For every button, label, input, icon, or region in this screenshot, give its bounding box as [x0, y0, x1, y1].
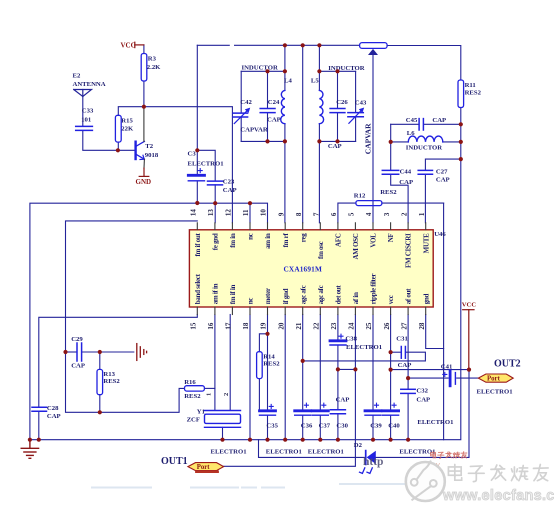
svg-text:ELECTRO1: ELECTRO1 — [211, 449, 247, 456]
svg-text:ELECTRO1: ELECTRO1 — [417, 419, 453, 426]
svg-text:21: 21 — [295, 322, 303, 330]
wire pin 2 elbow to C44 bottom — [391, 175, 408, 223]
svg-text:C32: C32 — [416, 387, 428, 394]
ground GND under T2 — [139, 168, 149, 176]
svg-text:NF: NF — [387, 233, 395, 242]
wire C41 to OUT2 port — [457, 377, 479, 379]
node right tank bottom / C26 — [335, 139, 339, 143]
wire R12 right lead — [382, 202, 444, 204]
svg-text:CAP: CAP — [328, 143, 342, 150]
svg-text:if gnd: if gnd — [282, 288, 290, 304]
wire R16 right lead — [204, 387, 215, 389]
svg-text:CAP: CAP — [432, 117, 446, 124]
svg-text:CAP: CAP — [436, 177, 450, 184]
node right rail / C45 — [459, 122, 463, 126]
wire pin 6 elbow and R12 left lead — [338, 203, 356, 223]
svg-text:FM CISCRI: FM CISCRI — [405, 233, 413, 268]
ground symbol right of C29 — [137, 344, 147, 361]
svg-text:INDUCTOR: INDUCTOR — [406, 144, 442, 151]
transistor T2 9018 — [136, 141, 145, 159]
node right rail / C27 — [459, 157, 463, 161]
svg-text:CAP: CAP — [71, 362, 85, 369]
svg-text:23: 23 — [330, 322, 338, 330]
svg-text:gnd: gnd — [422, 294, 430, 305]
svg-text:http: http — [363, 456, 383, 468]
crystal filter Y1 ZCF — [205, 411, 241, 428]
svg-text:8: 8 — [295, 212, 303, 216]
node base / R15 — [116, 148, 120, 152]
wire C45 right lead — [424, 123, 461, 125]
node C29 / R13 top — [98, 350, 102, 354]
electrolytic C40 — [383, 403, 399, 415]
wire pin 27 down through C32 — [407, 315, 409, 390]
wire left tank bottom edge — [241, 140, 285, 142]
wire right tank C26 branch — [337, 71, 339, 108]
svg-text:17: 17 — [225, 322, 233, 330]
svg-text:CAP: CAP — [416, 396, 430, 403]
transistor T2 collector pin — [143, 107, 145, 142]
svg-text:ELECTRO1: ELECTRO1 — [346, 344, 382, 351]
wire pin 15 to C28 — [39, 315, 198, 408]
svg-text:AFC: AFC — [335, 233, 343, 247]
svg-text:C43: C43 — [355, 100, 367, 107]
capvar C42 — [233, 108, 250, 124]
node top rail / L5 — [317, 43, 321, 47]
wire left tank C24 branch — [267, 71, 269, 108]
diode D2 LED — [360, 451, 376, 474]
svg-text:L4: L4 — [284, 77, 292, 84]
wire L6 left lead — [391, 141, 409, 143]
capacitor C33 — [76, 126, 93, 130]
electrolytic C39 — [365, 403, 381, 415]
capvar C43 — [348, 108, 364, 124]
wire det-out to af-in y=369.4 — [338, 368, 356, 370]
electrolytic C35 — [260, 404, 276, 415]
svg-text:VCC: VCC — [462, 302, 477, 309]
wire top rail right segment to R11 — [387, 46, 461, 81]
svg-text:C40: C40 — [388, 422, 400, 429]
watermark faint dashes bottom — [92, 484, 407, 488]
svg-text:OUT2: OUT2 — [494, 358, 521, 369]
pin stub top — [372, 223, 374, 230]
wire R3 bottom to collector junction — [143, 81, 145, 107]
svg-text:RES2: RES2 — [465, 90, 482, 97]
svg-text:CXA1691M: CXA1691M — [284, 265, 323, 274]
node ground rail / C40 — [389, 438, 393, 442]
svg-text:ELECTRO1: ELECTRO1 — [399, 449, 435, 456]
wire Y1 ground pin — [222, 427, 224, 439]
svg-text:C31: C31 — [396, 336, 408, 343]
wire R15 bottom lead — [117, 142, 119, 150]
svg-text:RES2: RES2 — [184, 393, 201, 400]
pin stub top — [337, 223, 339, 230]
node top rail / L4 — [283, 43, 287, 47]
wire L4 line from top rail — [284, 45, 286, 90]
resistor R13 — [97, 369, 120, 394]
svg-text:C42: C42 — [240, 99, 252, 106]
wire left tank top edge — [241, 70, 285, 72]
watermark small red text — [431, 452, 467, 459]
wire C3 junction elbow to C23 top — [197, 150, 215, 181]
node right rail / L6 — [459, 140, 463, 144]
svg-text:VOL: VOL — [370, 233, 378, 248]
wire pin 17 to Y1 pin 2 — [229, 315, 231, 411]
svg-text:MUTE: MUTE — [422, 233, 430, 253]
node gnd wire / pin14 line — [195, 201, 199, 205]
svg-text:C30: C30 — [336, 422, 348, 429]
node ground rail / pin18 — [248, 438, 252, 442]
svg-text:R13: R13 — [103, 371, 115, 378]
svg-text:am if in: am if in — [212, 283, 220, 304]
svg-text:CAP: CAP — [223, 187, 237, 194]
wire C43 bottom — [355, 117, 357, 141]
svg-text:Port: Port — [487, 376, 501, 383]
svg-text:9018: 9018 — [145, 152, 159, 159]
svg-text:U46: U46 — [434, 231, 446, 238]
node ground rail / C35 — [265, 438, 269, 442]
pin stub top — [390, 223, 392, 230]
svg-text:5: 5 — [348, 212, 356, 216]
wire C31 left lead to pin 26 — [391, 351, 401, 353]
node VCC drop — [467, 368, 471, 372]
wire right tank bottom edge — [319, 140, 355, 142]
svg-text:ELECTRO1: ELECTRO1 — [188, 160, 224, 167]
wire pin 26 vcc to VCC drop — [391, 369, 469, 371]
svg-text:C27: C27 — [436, 168, 448, 175]
power VCC right — [463, 310, 474, 370]
svg-text:fm osc: fm osc — [317, 241, 325, 259]
svg-text:C24: C24 — [268, 99, 280, 106]
wire C44 top to L6 left rail — [390, 124, 392, 170]
wire C45 left lead — [391, 123, 419, 125]
wire C29 left lead — [66, 351, 77, 353]
wire bottom ground rail and right rail — [30, 108, 461, 440]
svg-text:L5: L5 — [311, 77, 319, 84]
pin stub bottom — [337, 307, 339, 315]
pin stub bottom — [284, 307, 286, 315]
wire R13 top lead — [99, 352, 101, 369]
top rail jpeg gap — [230, 44, 234, 46]
wire pin 22 down through C37 — [319, 315, 321, 411]
wire antenna C33 to base — [83, 131, 135, 151]
node C3 C23 junction — [195, 148, 199, 152]
wire C35 bottom — [267, 415, 269, 439]
capacitor C30 — [330, 410, 345, 414]
wire C40 bottom — [390, 415, 392, 439]
pin stub bottom — [390, 307, 392, 315]
wire ground net y=203.2 (pins 13,11,10 + left rail) — [30, 203, 268, 440]
resistor R11 — [458, 80, 482, 108]
wire L6 right lead — [443, 141, 461, 143]
node ground rail / pin20 — [283, 438, 287, 442]
wire pin 18 to ground rail — [249, 315, 251, 440]
node pin19 / R14 tap — [265, 332, 269, 336]
node gnd wire / pin11 — [248, 201, 252, 205]
red watermark bar under OUT1 port — [195, 470, 219, 473]
svg-text:vcc: vcc — [387, 295, 395, 304]
wire pin 21 agc to C31 right — [303, 352, 426, 361]
svg-text:nc: nc — [247, 233, 255, 240]
wire L4 bottom to pin 9 — [284, 124, 286, 223]
earth ground bottom left — [21, 440, 38, 459]
wire mute-R12 line down to ground rail — [443, 203, 445, 440]
capacitor C23 — [208, 181, 223, 185]
capacitor C28 — [32, 407, 47, 411]
svg-text:CAP: CAP — [336, 397, 350, 404]
wire pin 24 down to OUT1 — [224, 315, 356, 467]
wire antenna stem upper — [82, 96, 84, 126]
svg-text:16: 16 — [207, 322, 215, 330]
power VCC top left — [135, 42, 144, 47]
svg-text:fm in: fm in — [229, 233, 237, 248]
svg-text:20: 20 — [277, 322, 285, 330]
svg-text:AM OSC: AM OSC — [352, 233, 360, 259]
svg-text:CAP: CAP — [399, 179, 413, 186]
node ground rail / C36 — [301, 438, 305, 442]
svg-text:12: 12 — [225, 209, 233, 217]
svg-text:fm if in: fm if in — [229, 285, 237, 305]
svg-text:101: 101 — [81, 116, 91, 123]
svg-text:C26: C26 — [336, 99, 348, 106]
node right tank top / C26 — [335, 69, 339, 73]
node ground rail / C39 — [371, 438, 375, 442]
svg-text:CAPVAR: CAPVAR — [240, 126, 268, 133]
node right tank top / L5 — [317, 69, 321, 73]
wire pin 16 to Y1 pin 1 — [214, 315, 216, 411]
svg-text:2: 2 — [400, 212, 408, 216]
svg-text:C3: C3 — [188, 151, 197, 158]
node ground rail / left gnd — [28, 438, 32, 442]
pin stub bottom — [214, 307, 216, 315]
svg-text:C36: C36 — [301, 422, 313, 429]
pin stub bottom — [425, 307, 427, 315]
wire pin 26 down through C40 — [390, 315, 392, 411]
wire top rail left segment — [197, 44, 359, 46]
wire R13 bottom lead — [99, 395, 101, 413]
node pin27 / C41 wire — [406, 376, 410, 380]
pin stub bottom — [372, 307, 374, 315]
svg-text:band select: band select — [194, 273, 202, 304]
svg-text:ANTENNA: ANTENNA — [73, 81, 106, 88]
wire C29 right lead to R13 and ground symbol — [82, 351, 134, 353]
svg-text:INDUCTOR: INDUCTOR — [242, 65, 278, 72]
node pin26 / C31 — [389, 350, 393, 354]
svg-text:E2: E2 — [73, 73, 81, 80]
svg-text:CAPVAR: CAPVAR — [364, 123, 373, 154]
pin stub bottom — [354, 307, 356, 315]
node pin23 / af wire — [336, 367, 340, 371]
svg-text:T2: T2 — [145, 143, 153, 150]
svg-text:C23: C23 — [223, 179, 235, 186]
svg-text:R11: R11 — [465, 82, 476, 89]
wire pin 19 through R14 tap to C35 — [267, 315, 269, 411]
svg-text:15: 15 — [190, 322, 198, 330]
svg-text:reg: reg — [299, 233, 307, 242]
svg-text:det out: det out — [335, 285, 343, 305]
electrolytic C36 — [295, 403, 311, 415]
svg-text:GND: GND — [136, 178, 152, 186]
wire pin 23 to C38 — [337, 315, 339, 341]
wire C3 bottom to ground net — [196, 181, 198, 203]
svg-text:C45: C45 — [406, 117, 418, 124]
svg-text:1: 1 — [418, 212, 426, 216]
node left tank top / L4 — [283, 69, 287, 73]
op-amp U46 IC body — [189, 230, 433, 307]
capacitor C31 — [401, 347, 405, 359]
node pin26 / vcc wire — [389, 368, 393, 372]
node gnd wire / pin13 — [213, 201, 217, 205]
wire pin 28 elbow to mute/gnd line — [426, 315, 444, 349]
svg-text:13: 13 — [207, 209, 215, 217]
svg-text:R16: R16 — [184, 379, 196, 386]
capacitor C27 — [418, 170, 432, 174]
antenna E2 — [74, 90, 92, 97]
wire pin 21 down through C36 — [302, 315, 304, 411]
svg-text:agc afc: agc afc — [317, 285, 325, 304]
svg-text:18: 18 — [242, 322, 250, 330]
svg-text:C38: C38 — [345, 335, 357, 342]
electrolytic C38 — [330, 334, 346, 345]
svg-text:25: 25 — [365, 322, 373, 330]
svg-text:C33: C33 — [82, 108, 94, 115]
port OUT2 — [478, 374, 513, 383]
node right tank bottom / L5 — [317, 139, 321, 143]
port OUT1 — [188, 463, 224, 472]
pin stub bottom — [319, 307, 321, 315]
svg-text:af in: af in — [352, 292, 360, 304]
wire right tank C43 branch — [355, 71, 357, 112]
svg-text:L6: L6 — [407, 130, 415, 137]
wire C23 bottom to pin 13 — [214, 185, 216, 223]
svg-text:27: 27 — [400, 322, 408, 330]
svg-text:C37: C37 — [319, 422, 331, 429]
wire C38 bottom to C30 — [337, 345, 339, 410]
svg-text:CAP: CAP — [47, 413, 61, 420]
pin stub top — [196, 223, 198, 230]
svg-text:C29: C29 — [71, 336, 83, 343]
transistor T2 emitter pin — [143, 159, 145, 168]
electrolytic C37 — [312, 403, 328, 415]
svg-text:D2: D2 — [354, 442, 363, 449]
node ground rail / Y1 — [220, 438, 224, 442]
node top rail / pin8 — [301, 43, 305, 47]
pin stub top — [231, 223, 233, 230]
wire R14 top elbow — [259, 334, 267, 352]
svg-text:CAP: CAP — [398, 362, 412, 369]
svg-text:RES2: RES2 — [263, 361, 280, 368]
node ground rail / C32 — [406, 438, 410, 442]
svg-text:am in: am in — [264, 233, 272, 249]
pin stub bottom — [196, 307, 198, 315]
capacitor C26 — [330, 109, 345, 113]
svg-text:R14: R14 — [263, 353, 275, 360]
node left tank bottom / L4 — [283, 139, 287, 143]
svg-text:ZCF: ZCF — [187, 417, 200, 424]
wire C32 bottom — [407, 394, 409, 440]
wire R14 bottom lead — [258, 379, 260, 410]
svg-text:agc afc: agc afc — [299, 285, 307, 304]
svg-text:Port: Port — [197, 464, 211, 471]
wire trimmer slider stem to pin 4 — [372, 55, 374, 223]
svg-text:fm if out: fm if out — [194, 233, 202, 257]
node ground rail / C37 — [318, 438, 322, 442]
pin stub bottom — [231, 307, 233, 315]
inductor L4 — [281, 90, 285, 123]
svg-text:ELECTRO1: ELECTRO1 — [477, 389, 513, 396]
node fm-if-out rail / C29 — [63, 350, 67, 354]
svg-text:C35: C35 — [266, 422, 278, 429]
inductor L6 — [408, 136, 443, 142]
wire C36 bottom — [302, 415, 304, 439]
wire C26 bottom — [337, 113, 339, 142]
wire pin 8 to top rail — [302, 45, 304, 223]
wire x=197.3 top rail down to C3 junction — [196, 45, 198, 150]
node pin21 / C31 wire — [301, 359, 305, 363]
pin stub top — [319, 223, 321, 230]
svg-text:3: 3 — [383, 212, 391, 216]
node pin24 / af wire — [353, 367, 357, 371]
node R3 bottom / T2 collector — [142, 105, 146, 109]
node L6 left / C44 — [389, 140, 393, 144]
wire C28 bottom to ground rail — [38, 412, 40, 440]
svg-text:19: 19 — [260, 322, 268, 330]
resistor R12 — [354, 189, 397, 205]
svg-text:CAP: CAP — [267, 117, 281, 124]
inductor L5 — [319, 90, 323, 123]
svg-text:Y1: Y1 — [197, 408, 205, 415]
svg-text:10: 10 — [260, 209, 268, 217]
resistor R14 — [257, 352, 281, 379]
capacitor C32 — [401, 389, 415, 393]
svg-text:6: 6 — [330, 212, 338, 216]
wire D2 cathode to ground tap — [259, 440, 366, 458]
svg-text:22K: 22K — [121, 125, 134, 132]
node ground rail / C30 — [336, 438, 340, 442]
wire pin 25 down through C39 — [372, 315, 374, 411]
svg-text:14: 14 — [190, 209, 198, 217]
svg-text:nc: nc — [247, 298, 255, 305]
capacitor C24 — [260, 109, 275, 113]
resistor R15 — [115, 115, 134, 142]
wire L5 bottom to pin 7 — [318, 124, 320, 223]
trimmer on top rail — [360, 43, 388, 55]
pin stub top — [249, 223, 251, 230]
capacitor C29 — [77, 343, 82, 361]
wire C3 junction to C3 top — [196, 150, 198, 174]
svg-text:RES2: RES2 — [380, 189, 397, 196]
node ground rail / C28 — [37, 438, 41, 442]
svg-text:7: 7 — [313, 212, 321, 216]
resistor R3 — [141, 54, 161, 82]
pin stub bottom — [302, 307, 304, 315]
wire C27 top elbow to right rail — [425, 159, 460, 170]
node left tank top / C24 — [265, 69, 269, 73]
wire VCC drop down to D2 — [376, 370, 469, 458]
pin stub top — [284, 223, 286, 230]
svg-text:INDUCTOR: INDUCTOR — [328, 65, 364, 72]
svg-text:9: 9 — [277, 212, 285, 216]
svg-text:R3: R3 — [148, 56, 157, 63]
svg-text:28: 28 — [418, 322, 426, 330]
svg-text:24: 24 — [348, 322, 356, 330]
svg-text:4: 4 — [365, 212, 373, 216]
pin stub bottom — [407, 307, 409, 315]
svg-text:R12: R12 — [354, 193, 366, 200]
svg-text:OUT1: OUT1 — [161, 456, 188, 467]
svg-text:ELECTRO1: ELECTRO1 — [266, 449, 302, 456]
svg-text:af out: af out — [405, 288, 413, 304]
svg-text:C28: C28 — [47, 405, 59, 412]
